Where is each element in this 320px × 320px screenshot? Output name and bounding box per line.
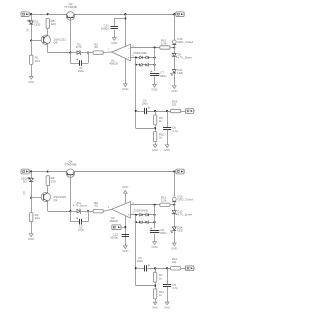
svg-text:4.7V_Zener: 4.7V_Zener: [177, 55, 192, 59]
svg-text:220: 220: [51, 22, 56, 26]
svg-text:LED: LED: [177, 229, 182, 233]
svg-text:220: 220: [172, 260, 177, 264]
svg-text:GND: GND: [171, 246, 177, 250]
svg-text:100u: 100u: [78, 227, 85, 231]
svg-text:5V: 5V: [26, 28, 30, 32]
svg-text:GND: GND: [111, 41, 117, 45]
svg-text:2.2k: 2.2k: [161, 199, 167, 203]
svg-text:−: −: [128, 46, 130, 50]
svg-text:4562D: 4562D: [109, 219, 118, 223]
svg-text:4.7p: 4.7p: [172, 129, 178, 133]
svg-text:4.7p: 4.7p: [172, 286, 178, 290]
svg-text:D2: D2: [23, 180, 27, 184]
svg-text:GND: GND: [151, 88, 157, 92]
svg-text:GND: GND: [122, 249, 128, 253]
svg-text:100u: 100u: [141, 102, 148, 106]
svg-text:CRD_3.6mA: CRD_3.6mA: [177, 197, 193, 201]
svg-text:2.2k: 2.2k: [161, 41, 167, 45]
svg-text:1SS306VW: 1SS306VW: [133, 208, 148, 212]
svg-text:100u: 100u: [137, 259, 144, 263]
svg-text:GND: GND: [152, 148, 158, 152]
svg-text:330u: 330u: [160, 74, 167, 78]
svg-text:TTA004B: TTA004B: [64, 162, 76, 166]
svg-text:GND: GND: [164, 148, 170, 152]
svg-text:−: −: [128, 203, 130, 207]
svg-text:+: +: [128, 213, 130, 217]
svg-text:Q6: Q6: [53, 41, 57, 45]
svg-text:4.7V_Zener: 4.7V_Zener: [177, 213, 192, 217]
svg-text:TTC004B: TTC004B: [64, 5, 77, 9]
svg-text:1000p: 1000p: [101, 27, 109, 31]
svg-text:GND: GND: [28, 80, 34, 84]
svg-text:4562D: 4562D: [109, 62, 118, 66]
svg-text:104: 104: [35, 216, 40, 220]
svg-text:220: 220: [172, 103, 177, 107]
svg-text:1000p: 1000p: [110, 235, 118, 239]
svg-text:220: 220: [51, 180, 56, 184]
svg-text:GND: GND: [151, 245, 157, 249]
svg-text:CRD_3.6mA: CRD_3.6mA: [177, 40, 193, 44]
svg-text:100u: 100u: [78, 69, 85, 73]
svg-text:GND: GND: [164, 305, 170, 309]
svg-text:LED: LED: [177, 71, 182, 75]
svg-text:GND: GND: [171, 89, 177, 93]
svg-text:90: 90: [94, 45, 98, 49]
svg-text:5V: 5V: [22, 191, 26, 195]
svg-text:GND: GND: [122, 185, 128, 189]
svg-text:2SD2704K: 2SD2704K: [133, 51, 147, 55]
svg-text:90: 90: [94, 204, 98, 208]
svg-text:4.7V: 4.7V: [76, 45, 82, 49]
svg-text:LED: LED: [34, 22, 41, 26]
svg-text:4.7V_Zener: 4.7V_Zener: [73, 204, 87, 208]
svg-text:GND: GND: [122, 87, 128, 91]
svg-text:GND: GND: [152, 305, 158, 309]
svg-text:330u: 330u: [160, 231, 167, 235]
svg-text:+: +: [128, 55, 130, 59]
svg-text:GND: GND: [28, 237, 34, 241]
svg-text:104: 104: [35, 59, 40, 63]
svg-text:Q2: Q2: [53, 198, 57, 202]
